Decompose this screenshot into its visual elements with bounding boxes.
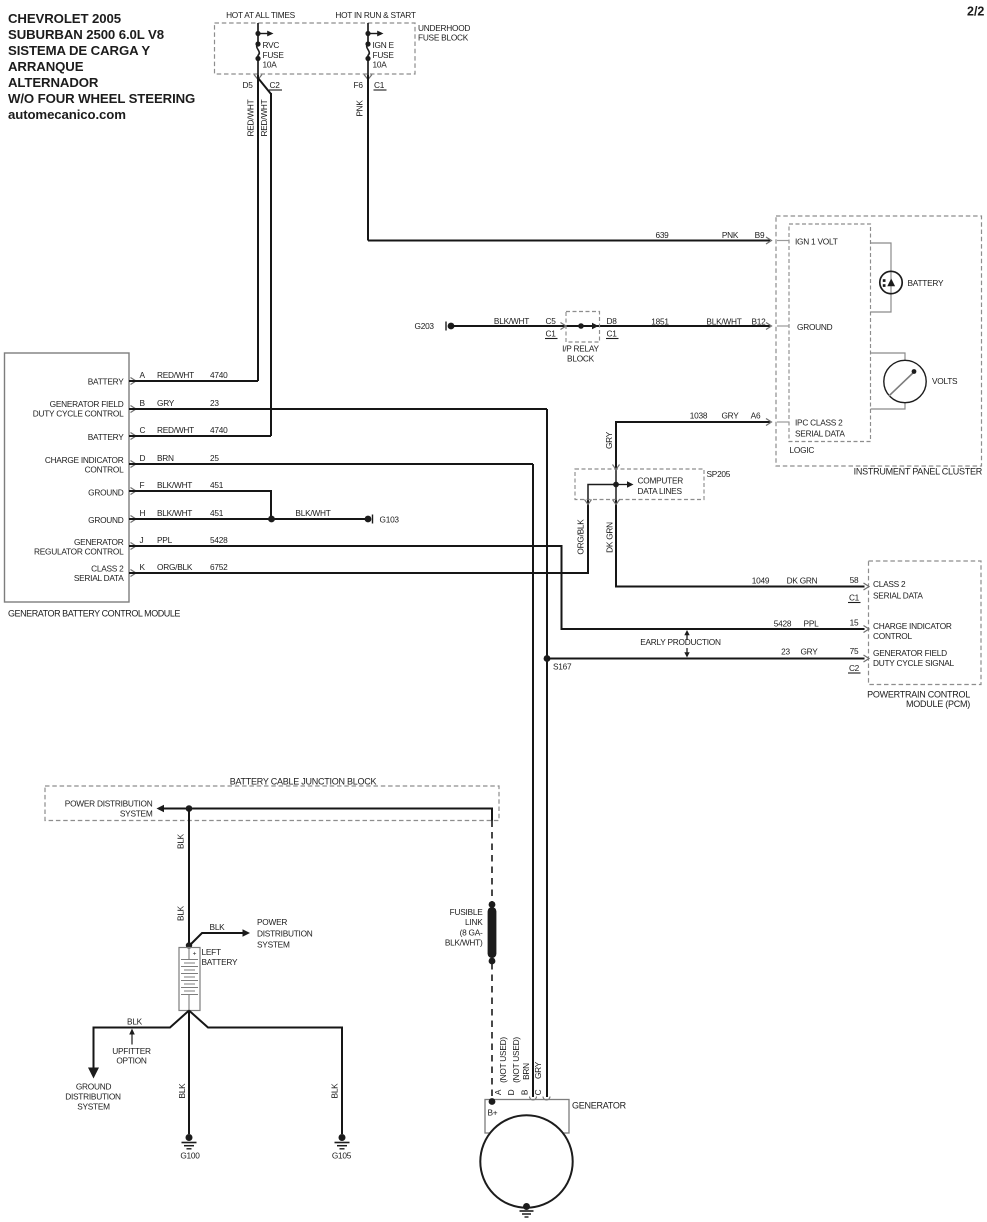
svg-text:CHARGE INDICATOR: CHARGE INDICATOR (45, 455, 124, 465)
pin B+ dot (489, 1098, 496, 1105)
svg-text:B12: B12 (751, 317, 766, 327)
wire GRY 23 vertical B to S167 to generator C (546, 409, 548, 1097)
labels 5428 PPL 15 (774, 618, 859, 629)
svg-text:23: 23 (781, 647, 790, 657)
svg-text:RED/WHT: RED/WHT (259, 99, 269, 136)
svg-text:BLK/WHT: BLK/WHT (706, 317, 741, 327)
splice pack SP205 computer data lines box (575, 469, 731, 500)
labels 1049 DK GRN 58 C1 (752, 575, 861, 603)
svg-text:IGN 1 VOLT: IGN 1 VOLT (795, 237, 838, 247)
svg-text:B: B (140, 398, 146, 408)
svg-text:FUSE BLOCK: FUSE BLOCK (418, 33, 469, 43)
PCM pin names (873, 579, 955, 668)
svg-text:RED/WHT: RED/WHT (157, 425, 194, 435)
svg-text:CLASS 2: CLASS 2 (873, 579, 906, 589)
pin labels D5 C2 F6 C1 (243, 80, 387, 90)
svg-text:LEFT: LEFT (202, 947, 221, 957)
wire battery negative fan right to G105 (189, 1011, 342, 1135)
svg-text:639: 639 (655, 230, 669, 240)
svg-text:POWER DISTRIBUTION: POWER DISTRIBUTION (65, 799, 153, 809)
svg-text:+: + (193, 951, 197, 958)
svg-text:C1: C1 (374, 80, 385, 90)
svg-text:REGULATOR CONTROL: REGULATOR CONTROL (34, 547, 124, 557)
fuse IGN E FUSE 10A (365, 23, 394, 75)
relay block pin labels C5 C1 D8 C1 (545, 316, 619, 339)
svg-text:23: 23 (210, 398, 219, 408)
wire BLK/WHT 1851 G203 to IPC B12 (451, 325, 770, 327)
svg-text:GENERATOR: GENERATOR (572, 1101, 627, 1111)
svg-text:F6: F6 (354, 80, 364, 90)
underhood fuse block box (215, 10, 471, 74)
IPC pin A6 chevron and stub (766, 419, 772, 426)
svg-text:(NOT USED): (NOT USED) (511, 1037, 521, 1083)
svg-text:INSTRUMENT PANEL CLUSTER: INSTRUMENT PANEL CLUSTER (854, 467, 983, 477)
labels 1038 GRY A6 (690, 411, 761, 421)
svg-text:OPTION: OPTION (116, 1056, 147, 1066)
wire GRY 1038 from IPC A6 down to SP205 (616, 422, 770, 469)
svg-text:DK GRN: DK GRN (605, 522, 615, 553)
svg-text:58: 58 (850, 575, 859, 585)
svg-text:BLOCK: BLOCK (567, 354, 595, 364)
svg-text:C2: C2 (270, 80, 281, 90)
IPC pin B12 chevron and stub (766, 323, 772, 330)
battery telltale indicator (880, 271, 944, 293)
wire battery to G100 (188, 1011, 190, 1135)
svg-text:25: 25 (210, 453, 219, 463)
svg-text:B9: B9 (755, 230, 765, 240)
svg-text:5428: 5428 (774, 619, 792, 629)
svg-text:GRY: GRY (533, 1061, 543, 1079)
svg-text:1049: 1049 (752, 576, 770, 586)
svg-text:I/P RELAY: I/P RELAY (562, 344, 599, 354)
svg-text:C1: C1 (546, 329, 557, 339)
svg-text:CONTROL: CONTROL (873, 631, 912, 641)
svg-text:BLK/WHT: BLK/WHT (494, 316, 529, 326)
wire BRN 25 vertical D to generator B (532, 464, 534, 1097)
svg-text:4740: 4740 (210, 370, 228, 380)
svg-text:DUTY CYCLE CONTROL: DUTY CYCLE CONTROL (33, 409, 124, 419)
svg-text:GROUND: GROUND (88, 488, 124, 498)
ground G103 (365, 515, 400, 525)
wire BLK down to left battery (188, 809, 190, 949)
svg-text:VOLTS: VOLTS (932, 376, 958, 386)
svg-text:BLK: BLK (330, 1083, 340, 1099)
svg-text:HOT AT ALL TIMES: HOT AT ALL TIMES (226, 10, 296, 20)
svg-text:B: B (520, 1089, 530, 1095)
battery cable junction block box (45, 777, 499, 821)
powertrain control module PCM box (869, 561, 982, 685)
dashed wire BCJB to fusible link (491, 821, 493, 904)
ground G105 (332, 1134, 352, 1161)
svg-text:POWER: POWER (257, 917, 287, 927)
wire pin C row (129, 435, 271, 437)
arrow ground distribution system (88, 1068, 99, 1079)
svg-text:GENERATOR FIELD: GENERATOR FIELD (873, 648, 947, 658)
svg-text:IGN E: IGN E (373, 40, 395, 50)
svg-text:LOGIC: LOGIC (790, 445, 815, 455)
IPC pin names (795, 237, 845, 439)
svg-text:SP205: SP205 (707, 469, 731, 479)
svg-text:PPL: PPL (804, 619, 820, 629)
svg-text:BLK: BLK (176, 833, 186, 849)
generator body circle (480, 1115, 572, 1207)
svg-text:COMPUTER: COMPUTER (638, 476, 684, 486)
labels 23 GRY 75 C2 (781, 646, 860, 673)
svg-text:SERIAL DATA: SERIAL DATA (795, 429, 845, 439)
fusible link (8 GA- BLK/WHT) (445, 901, 497, 964)
wire 23 GRY to PCM 75 (547, 658, 865, 660)
junction dot BLK branch (186, 805, 193, 812)
GBCM pin wire labels (140, 370, 229, 572)
wire pin D row BRN 25 (129, 463, 533, 465)
label power distribution system (257, 917, 313, 950)
wire pin B row GRY 23 (129, 408, 547, 410)
svg-text:DK GRN: DK GRN (787, 576, 818, 586)
svg-text:SUBURBAN 2500 6.0L V8: SUBURBAN 2500 6.0L V8 (8, 27, 164, 42)
svg-text:ORG/BLK: ORG/BLK (576, 519, 586, 555)
volts gauge (884, 360, 958, 402)
svg-text:BLK/WHT): BLK/WHT) (445, 938, 483, 948)
wire 1049 DK GRN to PCM 58 (616, 500, 865, 587)
svg-text:automecanico.com: automecanico.com (8, 107, 126, 122)
svg-text:G105: G105 (332, 1151, 352, 1161)
svg-text:BATTERY: BATTERY (202, 957, 238, 967)
svg-text:PNK: PNK (722, 230, 739, 240)
svg-text:ORG/BLK: ORG/BLK (157, 562, 193, 572)
generator case ground (520, 1203, 534, 1217)
svg-text:D8: D8 (607, 316, 618, 326)
GBCM pin chevrons A B C D F H J K (131, 378, 137, 577)
wire RED/WHT 2 vertical to pin C (270, 93, 272, 436)
wire battery negative fan left (94, 1011, 190, 1070)
wire PNK horizontal 639 to IPC B9 (368, 240, 770, 242)
svg-text:G103: G103 (380, 515, 400, 525)
svg-text:SYSTEM: SYSTEM (120, 809, 153, 819)
svg-text:10A: 10A (373, 60, 388, 70)
svg-text:S167: S167 (553, 662, 572, 672)
svg-text:BATTERY: BATTERY (908, 278, 944, 288)
svg-text:BLK/WHT: BLK/WHT (295, 508, 330, 518)
IPC logic inner box (789, 224, 871, 442)
labels BLK/WHT C5 and 1851 BLK/WHT B12 (494, 316, 766, 327)
dashed wire fusible link to generator B+ (491, 963, 493, 1099)
svg-text:CONTROL: CONTROL (85, 465, 124, 475)
wire power distribution arrow to right edge (157, 805, 165, 812)
svg-text:A: A (493, 1089, 503, 1095)
label EARLY PRODUCTION with arrows (640, 630, 721, 658)
ground G203 (415, 321, 455, 331)
svg-text:B+: B+ (488, 1108, 498, 1118)
battery telltale bracket wires (871, 243, 892, 312)
svg-text:D5: D5 (243, 80, 254, 90)
svg-text:EARLY PRODUCTION: EARLY PRODUCTION (640, 637, 721, 647)
svg-text:HOT IN RUN & START: HOT IN RUN & START (335, 10, 416, 20)
svg-text:BLK/WHT: BLK/WHT (157, 508, 192, 518)
GBCM internal pin name labels (33, 377, 124, 584)
svg-text:75: 75 (850, 646, 859, 656)
I/P relay block box (561, 312, 600, 364)
wire pin K row ORG/BLK 6752 (129, 500, 588, 574)
volts gauge bracket wires (871, 353, 906, 361)
svg-text:SISTEMA DE CARGA Y: SISTEMA DE CARGA Y (8, 43, 150, 58)
splice S167 (544, 655, 551, 662)
svg-text:BATTERY CABLE JUNCTION BLOCK: BATTERY CABLE JUNCTION BLOCK (230, 777, 377, 787)
wire split diagonal D5 to second RED/WHT (258, 78, 271, 94)
svg-text:BATTERY: BATTERY (88, 377, 124, 387)
svg-text:K: K (140, 562, 146, 572)
svg-text:DISTRIBUTION: DISTRIBUTION (257, 929, 313, 939)
svg-text:C5: C5 (546, 316, 557, 326)
svg-text:C1: C1 (849, 593, 860, 603)
svg-text:MODULE (PCM): MODULE (PCM) (906, 699, 970, 709)
svg-text:IPC CLASS 2: IPC CLASS 2 (795, 418, 843, 428)
svg-text:15: 15 (850, 618, 859, 628)
wire pin J row PPL 5428 (129, 546, 865, 629)
svg-text:GENERATOR BATTERY CONTROL MODU: GENERATOR BATTERY CONTROL MODULE (8, 609, 180, 619)
svg-text:1038: 1038 (690, 411, 708, 421)
svg-text:DISTRIBUTION: DISTRIBUTION (65, 1092, 121, 1102)
svg-text:SYSTEM: SYSTEM (77, 1102, 110, 1112)
svg-text:10A: 10A (263, 60, 278, 70)
svg-text:BLK/WHT: BLK/WHT (157, 480, 192, 490)
svg-text:(8 GA-: (8 GA- (460, 928, 483, 938)
svg-text:BLK: BLK (127, 1017, 143, 1027)
svg-text:GENERATOR: GENERATOR (74, 537, 124, 547)
pin D5 exit chevron (254, 75, 262, 80)
IPC pin B9 chevron and stub (766, 237, 772, 244)
wire RED/WHT 1 vertical from D5 to pin A (257, 75, 259, 381)
svg-text:4740: 4740 (210, 425, 228, 435)
svg-text:CHARGE INDICATOR: CHARGE INDICATOR (873, 621, 952, 631)
pin F6 exit chevron (364, 75, 372, 80)
svg-text:D: D (506, 1089, 516, 1095)
svg-text:BLK: BLK (176, 905, 186, 921)
left battery (179, 947, 238, 1011)
svg-text:C1: C1 (607, 329, 618, 339)
svg-text:GRY: GRY (721, 411, 739, 421)
svg-text:FUSE: FUSE (263, 50, 285, 60)
svg-text:5428: 5428 (210, 535, 228, 545)
svg-text:DATA LINES: DATA LINES (638, 486, 683, 496)
svg-text:UNDERHOOD: UNDERHOOD (418, 23, 470, 33)
svg-text:PPL: PPL (157, 535, 173, 545)
svg-text:2/2: 2/2 (967, 5, 984, 19)
svg-text:SERIAL DATA: SERIAL DATA (74, 573, 124, 583)
SP205 border pin chevrons (613, 465, 620, 470)
svg-text:A: A (140, 370, 146, 380)
wire pin F row BLK/WHT 451 (129, 491, 271, 519)
svg-text:FUSE: FUSE (373, 50, 395, 60)
svg-text:451: 451 (210, 480, 224, 490)
wire pin H row BLK/WHT 451 (129, 518, 368, 520)
upfitter option arrow (131, 1034, 133, 1045)
svg-text:RED/WHT: RED/WHT (246, 99, 256, 136)
ground G100 (180, 1134, 200, 1161)
svg-text:POWERTRAIN CONTROL: POWERTRAIN CONTROL (867, 690, 970, 700)
PCM pin chevrons 58 15 75 (864, 583, 870, 662)
svg-text:GENERATOR FIELD: GENERATOR FIELD (50, 399, 124, 409)
svg-text:DUTY CYCLE SIGNAL: DUTY CYCLE SIGNAL (873, 658, 955, 668)
svg-text:G100: G100 (180, 1151, 200, 1161)
svg-text:GROUND: GROUND (76, 1082, 112, 1092)
wire pin A row (129, 380, 258, 382)
title block (8, 11, 195, 122)
svg-text:BRN: BRN (521, 1063, 531, 1080)
svg-text:CLASS 2: CLASS 2 (91, 564, 124, 574)
svg-text:C2: C2 (849, 663, 860, 673)
generator box (485, 1100, 569, 1134)
svg-text:PNK: PNK (355, 100, 365, 117)
wire PNK vertical from F6 (367, 75, 369, 241)
svg-text:6752: 6752 (210, 562, 228, 572)
svg-text:GROUND: GROUND (797, 322, 833, 332)
labels 639 PNK B9 (655, 230, 765, 240)
svg-text:A6: A6 (751, 411, 761, 421)
junction dot F/H splice (268, 516, 275, 523)
svg-text:BLK: BLK (177, 1083, 187, 1099)
svg-text:H: H (140, 508, 146, 518)
generator pin entry cups (530, 1097, 537, 1101)
svg-text:GRY: GRY (800, 647, 818, 657)
svg-text:J: J (140, 535, 144, 545)
svg-text:LINK: LINK (465, 917, 483, 927)
svg-text:FUSIBLE: FUSIBLE (450, 907, 484, 917)
svg-text:RVC: RVC (263, 40, 280, 50)
svg-text:451: 451 (210, 508, 224, 518)
wire BLK branch to power distribution system (189, 933, 244, 946)
svg-text:C: C (140, 425, 146, 435)
svg-text:F: F (140, 480, 145, 490)
svg-text:SYSTEM: SYSTEM (257, 940, 290, 950)
svg-text:BLK: BLK (210, 922, 226, 932)
svg-text:G203: G203 (415, 321, 435, 331)
svg-text:RED/WHT: RED/WHT (157, 370, 194, 380)
svg-text:ALTERNADOR: ALTERNADOR (8, 75, 99, 90)
svg-text:SERIAL DATA: SERIAL DATA (873, 591, 923, 601)
svg-text:W/O FOUR WHEEL STEERING: W/O FOUR WHEEL STEERING (8, 91, 195, 106)
generator battery control module U-GBCM box (5, 353, 130, 602)
svg-text:BRN: BRN (157, 453, 174, 463)
svg-text:UPFITTER: UPFITTER (112, 1046, 151, 1056)
svg-text:D: D (140, 453, 146, 463)
svg-text:(NOT USED): (NOT USED) (498, 1037, 508, 1083)
generator connector labels rotated (493, 1037, 543, 1096)
label ground distribution system (65, 1082, 121, 1112)
svg-text:BATTERY: BATTERY (88, 432, 124, 442)
svg-text:1851: 1851 (651, 317, 669, 327)
svg-text:CHEVROLET 2005: CHEVROLET 2005 (8, 11, 121, 26)
fuse RVC FUSE 10A (255, 23, 284, 75)
instrument panel cluster outer box (776, 216, 982, 466)
svg-text:C: C (533, 1089, 543, 1095)
svg-text:GRY: GRY (604, 431, 614, 449)
svg-text:GRY: GRY (157, 398, 175, 408)
svg-text:ARRANQUE: ARRANQUE (8, 59, 84, 74)
svg-text:GROUND: GROUND (88, 515, 124, 525)
